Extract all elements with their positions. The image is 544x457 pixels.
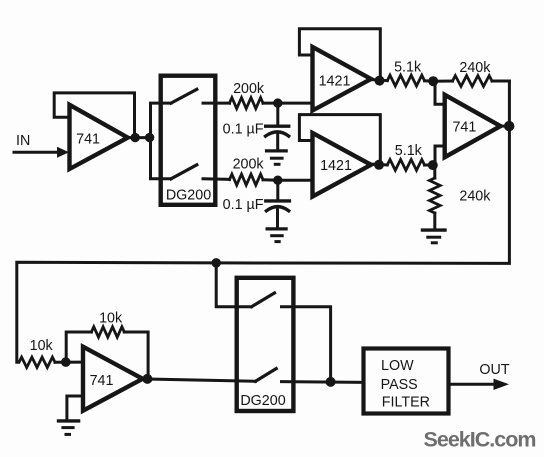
svg-text:5.1k: 5.1k — [394, 59, 422, 75]
svg-text:IN: IN — [16, 133, 30, 149]
svg-text:200k: 200k — [233, 81, 265, 97]
svg-text:1421: 1421 — [319, 74, 351, 90]
svg-text:10k: 10k — [99, 311, 123, 327]
svg-text:741: 741 — [90, 373, 114, 389]
svg-text:5.1k: 5.1k — [395, 143, 423, 159]
svg-text:0.1 µF: 0.1 µF — [223, 197, 264, 213]
svg-text:PASS: PASS — [381, 377, 418, 393]
svg-text:LOW: LOW — [381, 358, 414, 374]
svg-text:240k: 240k — [459, 60, 491, 76]
svg-text:OUT: OUT — [479, 362, 509, 378]
svg-text:10k: 10k — [30, 338, 54, 354]
svg-text:741: 741 — [452, 120, 476, 136]
svg-text:240k: 240k — [459, 189, 491, 205]
svg-text:FILTER: FILTER — [382, 395, 430, 411]
svg-text:200k: 200k — [233, 156, 265, 172]
svg-text:1421: 1421 — [320, 158, 352, 174]
svg-text:0.1 µF: 0.1 µF — [223, 122, 264, 138]
svg-text:741: 741 — [76, 131, 100, 147]
svg-text:DG200: DG200 — [166, 188, 211, 204]
svg-text:SeekIC.com: SeekIC.com — [424, 428, 536, 452]
svg-text:DG200: DG200 — [240, 393, 285, 409]
